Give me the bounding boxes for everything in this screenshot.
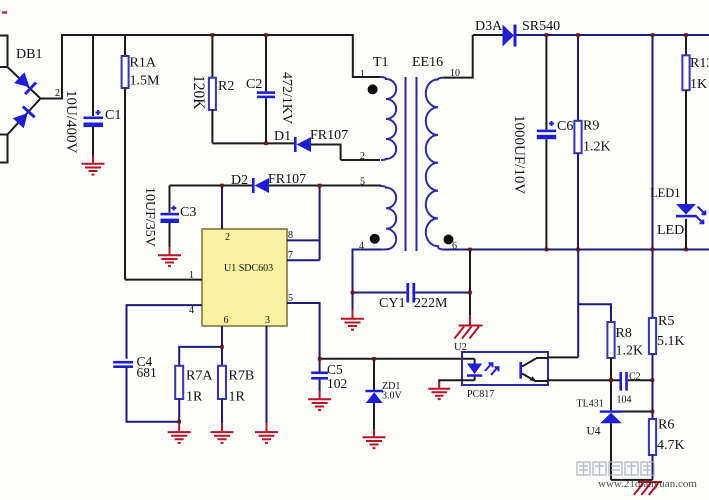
ground (under C3) xyxy=(158,247,181,266)
svg-text:1K: 1K xyxy=(690,77,707,92)
phototransistor inside U2 xyxy=(519,359,536,382)
capacitor C4 681 xyxy=(113,354,179,422)
capacitor C2 472/1KV xyxy=(246,35,294,143)
wire R2/C2 bottom rail to D1 xyxy=(212,142,294,144)
wire pins 7/8 tie to pin5 row of T1 xyxy=(319,186,321,261)
wire T1 pin 4 down to ground xyxy=(353,250,382,310)
diode D3A SR540 xyxy=(473,19,709,47)
svg-text:FR107: FR107 xyxy=(310,128,348,143)
svg-text:1.2K: 1.2K xyxy=(616,344,644,359)
transformer core xyxy=(406,77,417,251)
resistor R8 1.2K xyxy=(607,322,643,380)
resistor R7B 1R xyxy=(218,366,254,424)
wire bottom row TL431/R6 to chassis ground xyxy=(611,479,653,481)
svg-text:C1: C1 xyxy=(105,108,121,123)
svg-text:C3: C3 xyxy=(180,205,196,220)
red tick top-left xyxy=(2,11,7,13)
svg-text:7: 7 xyxy=(288,250,293,261)
svg-text:3: 3 xyxy=(265,315,270,326)
svg-text:3.0V: 3.0V xyxy=(382,391,403,402)
svg-text:PC817: PC817 xyxy=(467,389,494,400)
diode DB1 lower (in bridge) xyxy=(12,105,35,128)
svg-text:6: 6 xyxy=(224,315,229,326)
svg-text:D2: D2 xyxy=(231,173,248,188)
zener diode ZD1 3.0V xyxy=(366,359,403,429)
svg-text:472/1KV: 472/1KV xyxy=(279,72,294,124)
wire DB1 output to top rail xyxy=(41,35,63,99)
resistor R2 120K xyxy=(190,35,234,143)
wire U2 emitter row to R5/C2 node xyxy=(536,379,653,382)
ground (under R7B) xyxy=(211,424,234,443)
capacitor C1 10U/400V xyxy=(63,90,121,154)
wire T1 pin 5 row xyxy=(320,186,380,187)
capacitor C2 104 (feedback) xyxy=(617,372,641,406)
svg-text:1000UF/10V: 1000UF/10V xyxy=(511,115,527,194)
wire U2 collector up to output return rail xyxy=(536,356,578,359)
resistor R7A 1R xyxy=(175,366,213,424)
resistor R1A 1.5M xyxy=(122,35,160,280)
ground (T1 pin4 / CY1 left) xyxy=(341,310,364,330)
node phase dot pin6 xyxy=(444,235,454,245)
svg-text:R6: R6 xyxy=(658,418,674,433)
transformer T1 EE16 xyxy=(373,55,443,70)
node phase dot pin1 xyxy=(368,84,378,94)
svg-text:1: 1 xyxy=(189,270,194,281)
pin 8 (U1) wire xyxy=(287,230,320,241)
wire T1 pin 10 up to D3A xyxy=(444,35,473,78)
svg-text:5.1K: 5.1K xyxy=(657,334,685,349)
capacitor CY1 222M xyxy=(353,283,471,311)
svg-text:10UF/35V: 10UF/35V xyxy=(142,187,157,247)
pin 2 (U1) wire to C3/D2 node xyxy=(222,186,230,244)
LED inside U2 xyxy=(467,359,499,380)
svg-text:T1: T1 xyxy=(373,55,389,70)
svg-text:C2: C2 xyxy=(629,372,641,383)
pin 5 (U1) wire to feedback node xyxy=(287,293,320,359)
svg-text:1.2K: 1.2K xyxy=(583,140,611,155)
svg-text:FR107: FR107 xyxy=(268,172,306,187)
svg-text:LED: LED xyxy=(657,223,684,238)
pin 3 (U1) wire down xyxy=(265,315,270,423)
diode D1 FR107 xyxy=(274,128,348,160)
svg-text:R13: R13 xyxy=(690,56,709,71)
pin 6 (U1) wire down xyxy=(222,315,229,366)
svg-text:1R: 1R xyxy=(186,390,203,405)
resistor R13 1K xyxy=(682,35,709,205)
diode D2 FR107 xyxy=(231,172,320,193)
ground (under C5) xyxy=(308,391,331,410)
svg-text:4.7K: 4.7K xyxy=(657,438,685,453)
ground (under pin 3) xyxy=(255,423,278,443)
bridge rectifier DB1 xyxy=(0,36,60,163)
capacitor C6 1000UF/10V xyxy=(511,35,573,250)
T1 secondary winding pins 10-6 xyxy=(426,68,460,252)
svg-text:10U/400V: 10U/400V xyxy=(63,90,79,154)
resistor R9 1.2K xyxy=(574,35,610,250)
svg-text:U4: U4 xyxy=(587,426,601,438)
ground (under C1) xyxy=(82,156,105,175)
svg-text:R8: R8 xyxy=(616,326,632,341)
svg-text:R5: R5 xyxy=(658,314,674,329)
chassis ground (bottom right) xyxy=(634,482,662,495)
pin 7 (U1) wire xyxy=(287,250,320,261)
LED LED1 xyxy=(650,186,705,250)
wire top rail down to T1 pin 1 xyxy=(353,34,381,77)
svg-text:1R: 1R xyxy=(229,390,246,405)
diode DB1 upper (in bridge) xyxy=(14,72,37,95)
wire top AC+ rail xyxy=(61,34,353,36)
wire T1 pin 6 to output return rail xyxy=(444,249,709,251)
T1 lower primary winding pins 5-4 xyxy=(359,177,396,253)
capacitor C3 10UF/35V xyxy=(142,186,196,248)
wire U2 LED cathode to ground xyxy=(439,380,474,382)
svg-text:C5: C5 xyxy=(327,362,343,377)
T1 primary winding pins 1-2 xyxy=(360,69,396,162)
ground (under ZD1) xyxy=(363,429,386,448)
svg-text:102: 102 xyxy=(327,376,347,391)
svg-text:CY1: CY1 xyxy=(379,296,405,311)
svg-text:TL431: TL431 xyxy=(577,399,604,410)
svg-text:1: 1 xyxy=(360,69,365,80)
svg-text:5: 5 xyxy=(288,293,293,304)
svg-text:R7A: R7A xyxy=(186,369,213,384)
shunt regulator U4 TL431 xyxy=(577,380,653,480)
svg-text:2: 2 xyxy=(225,232,230,243)
resistor R5 5.1K xyxy=(649,314,685,419)
wire T1 pin 2 from D1 xyxy=(341,159,380,161)
svg-text:2: 2 xyxy=(55,88,60,99)
svg-text:R2: R2 xyxy=(218,79,234,94)
ground (under R7A) xyxy=(168,424,191,443)
wire pin6 node down to chassis ground xyxy=(469,250,471,316)
wire D2 row (C3 node) xyxy=(170,185,253,187)
svg-text:104: 104 xyxy=(617,395,632,406)
svg-text:C2: C2 xyxy=(246,77,262,92)
svg-text:DB1: DB1 xyxy=(16,47,42,62)
optocoupler U2 PC817 xyxy=(454,342,548,400)
svg-text:LED1: LED1 xyxy=(650,186,681,200)
svg-text:U2: U2 xyxy=(454,342,467,353)
wire feedback row (U1 pin5 / C5 / ZD1 / U2) xyxy=(320,358,475,360)
chassis ground (CY1 right, under pin6 node) xyxy=(455,326,483,339)
svg-text:R9: R9 xyxy=(583,119,599,134)
node phase dot pin4 xyxy=(370,234,380,244)
svg-text:4: 4 xyxy=(189,305,194,316)
capacitor C5 102 xyxy=(311,359,347,391)
svg-text:EE16: EE16 xyxy=(412,55,443,70)
svg-text:D1: D1 xyxy=(274,129,291,144)
svg-text:1.5M: 1.5M xyxy=(130,74,161,89)
watermark (light gray) xyxy=(577,462,654,475)
pin 1 (U1) wire from R1A xyxy=(125,270,202,281)
svg-text:U1 SDC603: U1 SDC603 xyxy=(224,263,273,274)
svg-text:R1A: R1A xyxy=(130,56,157,71)
svg-text:8: 8 xyxy=(288,230,293,241)
wire C1 column xyxy=(92,35,94,116)
ground (U2 LED cathode) xyxy=(428,382,450,399)
svg-text:SR540: SR540 xyxy=(522,19,560,34)
pin 4 (U1) wire to C4 xyxy=(127,305,203,359)
svg-text:120K: 120K xyxy=(190,75,207,110)
svg-text:www.21dianyuan.com: www.21dianyuan.com xyxy=(598,478,697,490)
svg-text:R7B: R7B xyxy=(229,369,255,384)
op-amp U1 SDC603 (PWM controller IC) xyxy=(202,229,287,326)
wire collector branch to R8 xyxy=(578,304,611,322)
resistor R6 4.7K xyxy=(649,418,685,480)
svg-text:C6: C6 xyxy=(557,119,573,134)
svg-text:222M: 222M xyxy=(414,296,448,311)
svg-text:681: 681 xyxy=(137,365,157,380)
svg-text:D3A: D3A xyxy=(475,19,503,34)
wire output V+ column (to R5) xyxy=(652,35,654,318)
wire pin6 row to R7A xyxy=(179,347,222,366)
